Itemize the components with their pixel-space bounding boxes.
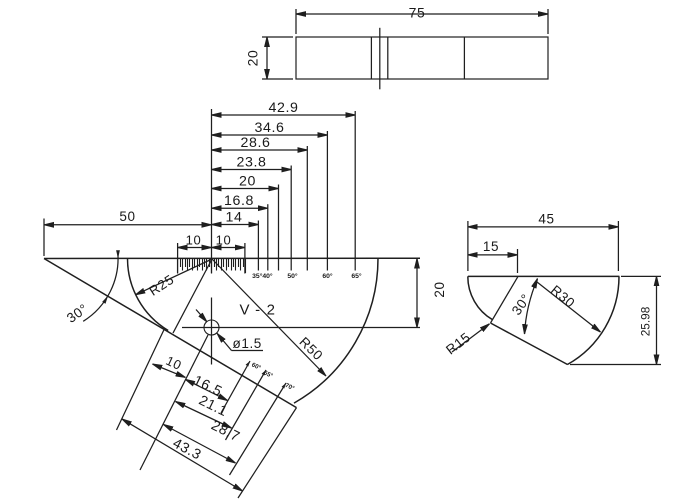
ext line 20 bbox=[278, 185, 280, 271]
ext line 20 top bbox=[262, 36, 293, 38]
svg-text:14: 14 bbox=[226, 210, 243, 226]
tick arrow 65deg bbox=[262, 370, 266, 376]
dimension 23.8 bbox=[212, 169, 292, 171]
ext line 20 bottom bbox=[262, 78, 293, 80]
svg-text:40°: 40° bbox=[262, 272, 273, 280]
svg-text:34.6: 34.6 bbox=[254, 120, 284, 136]
right block bottom edge bbox=[491, 323, 568, 365]
angle arc arrow at slant bbox=[102, 296, 108, 304]
tick arrow 60deg bbox=[246, 361, 250, 367]
dimension 15 bbox=[468, 254, 518, 256]
hole circle dia 1.5 bbox=[204, 320, 219, 335]
top view center mark line bbox=[379, 28, 381, 90]
ext 45 left bbox=[467, 221, 469, 271]
right block R30 arc bbox=[567, 276, 619, 364]
dimension 16.5 bbox=[185, 379, 227, 400]
right block R15 arc bbox=[468, 276, 493, 319]
dimension 10 rotated bbox=[153, 364, 186, 377]
svg-text:65°: 65° bbox=[351, 272, 362, 280]
svg-text:45: 45 bbox=[538, 212, 554, 227]
svg-text:V-2: V-2 bbox=[239, 302, 281, 319]
dimension 16.8 bbox=[212, 207, 268, 209]
svg-text:16.8: 16.8 bbox=[224, 193, 254, 209]
dimension 10 left bbox=[178, 247, 212, 249]
top view joint line bbox=[463, 37, 465, 79]
dia 1.5 underline bbox=[232, 350, 264, 352]
ext 25.98 bottom bbox=[570, 364, 661, 366]
ext line 28.6 bbox=[306, 146, 308, 271]
svg-text:60°: 60° bbox=[322, 272, 333, 280]
rotated ext line 70deg tick bbox=[230, 383, 287, 475]
dimension 42.9 bbox=[212, 114, 356, 116]
angle arc 30 deg right bbox=[525, 279, 538, 335]
right block top edge bbox=[468, 275, 620, 277]
dimension 34.6 bbox=[212, 134, 328, 136]
ext 45 right bbox=[617, 221, 619, 271]
dimension 28.6 bbox=[212, 149, 308, 151]
rotated ext line through hole bbox=[140, 335, 208, 470]
dimension 50 bbox=[44, 224, 212, 226]
top view block outline 75x20 bbox=[296, 37, 548, 79]
dimension 20 top view bbox=[266, 37, 268, 79]
ext line 42.9 bbox=[354, 111, 356, 271]
main block top surface bbox=[44, 257, 420, 259]
svg-text:50: 50 bbox=[119, 209, 135, 224]
rotated ext line left bbox=[117, 328, 165, 430]
svg-text:20: 20 bbox=[432, 281, 447, 297]
ext line 14 bbox=[257, 221, 259, 271]
dimension 10 right bbox=[212, 247, 245, 249]
svg-text:75: 75 bbox=[409, 5, 426, 21]
svg-text:15: 15 bbox=[483, 239, 499, 254]
main block R50 arc edge bbox=[294, 259, 378, 404]
dimension 20 bbox=[212, 188, 279, 190]
ext line 75 right bbox=[547, 9, 549, 34]
ext line 34.6 bbox=[326, 131, 328, 271]
svg-text:42.9: 42.9 bbox=[268, 100, 298, 116]
dia 1.5 upper arrow line bbox=[196, 310, 207, 322]
top view weld line left bbox=[370, 37, 372, 79]
center extension line bbox=[211, 109, 213, 274]
svg-text:28.6: 28.6 bbox=[240, 135, 270, 151]
ext line 10 right bbox=[244, 243, 246, 274]
dimension 75 bbox=[296, 13, 548, 15]
rotated ext line end bbox=[238, 408, 297, 498]
dimension 45 bbox=[468, 226, 619, 228]
svg-text:23.8: 23.8 bbox=[236, 155, 266, 171]
hole horizontal centerline bbox=[182, 327, 420, 329]
ruler graduation ticks bbox=[178, 259, 246, 274]
svg-text:20: 20 bbox=[239, 174, 256, 190]
svg-text:10: 10 bbox=[216, 233, 232, 248]
ext line 75 left bbox=[295, 9, 297, 34]
hole vertical centerline bbox=[211, 298, 213, 365]
R50 leader line bbox=[212, 259, 326, 376]
ext line 23.8 bbox=[290, 166, 292, 271]
dimension 14 bbox=[212, 224, 259, 226]
svg-text:35°: 35° bbox=[252, 272, 263, 280]
main block R25 arc edge bbox=[128, 259, 169, 331]
angle arc arrow at surface bbox=[116, 250, 120, 258]
rotated ext line 65deg tick bbox=[226, 370, 267, 440]
ext line 16.8 bbox=[267, 204, 269, 270]
right block 30deg wedge line bbox=[491, 276, 519, 323]
R15 leader bbox=[452, 324, 490, 352]
main block 30 deg slant edge bbox=[44, 259, 297, 408]
svg-text:ø1.5: ø1.5 bbox=[233, 336, 262, 351]
dimension 20 depth bbox=[416, 259, 418, 328]
top view weld line right bbox=[387, 37, 389, 79]
svg-text:20: 20 bbox=[245, 50, 261, 67]
svg-text:25.98: 25.98 bbox=[639, 306, 653, 336]
ext line 50 left bbox=[43, 219, 45, 257]
svg-text:50°: 50° bbox=[287, 272, 298, 280]
angle arc 30 deg bbox=[83, 251, 118, 321]
dia 1.5 lower leader bbox=[217, 333, 231, 350]
ext 15 right bbox=[517, 249, 519, 273]
svg-text:10: 10 bbox=[186, 233, 202, 248]
dimension 25.98 bbox=[656, 276, 658, 364]
ext line 10 left bbox=[177, 243, 179, 274]
dimension 28.7 bbox=[164, 425, 236, 464]
rotated ext line 60deg tick bbox=[221, 361, 250, 413]
tick arrow 70deg bbox=[282, 383, 286, 389]
R25 leader line bbox=[136, 259, 213, 295]
ext 25.98 top bbox=[621, 275, 661, 277]
index V line to slant bbox=[173, 259, 212, 333]
R30 leader bbox=[537, 282, 601, 332]
dimension 21.1 bbox=[176, 402, 232, 429]
dimension 43.3 bbox=[122, 419, 243, 491]
